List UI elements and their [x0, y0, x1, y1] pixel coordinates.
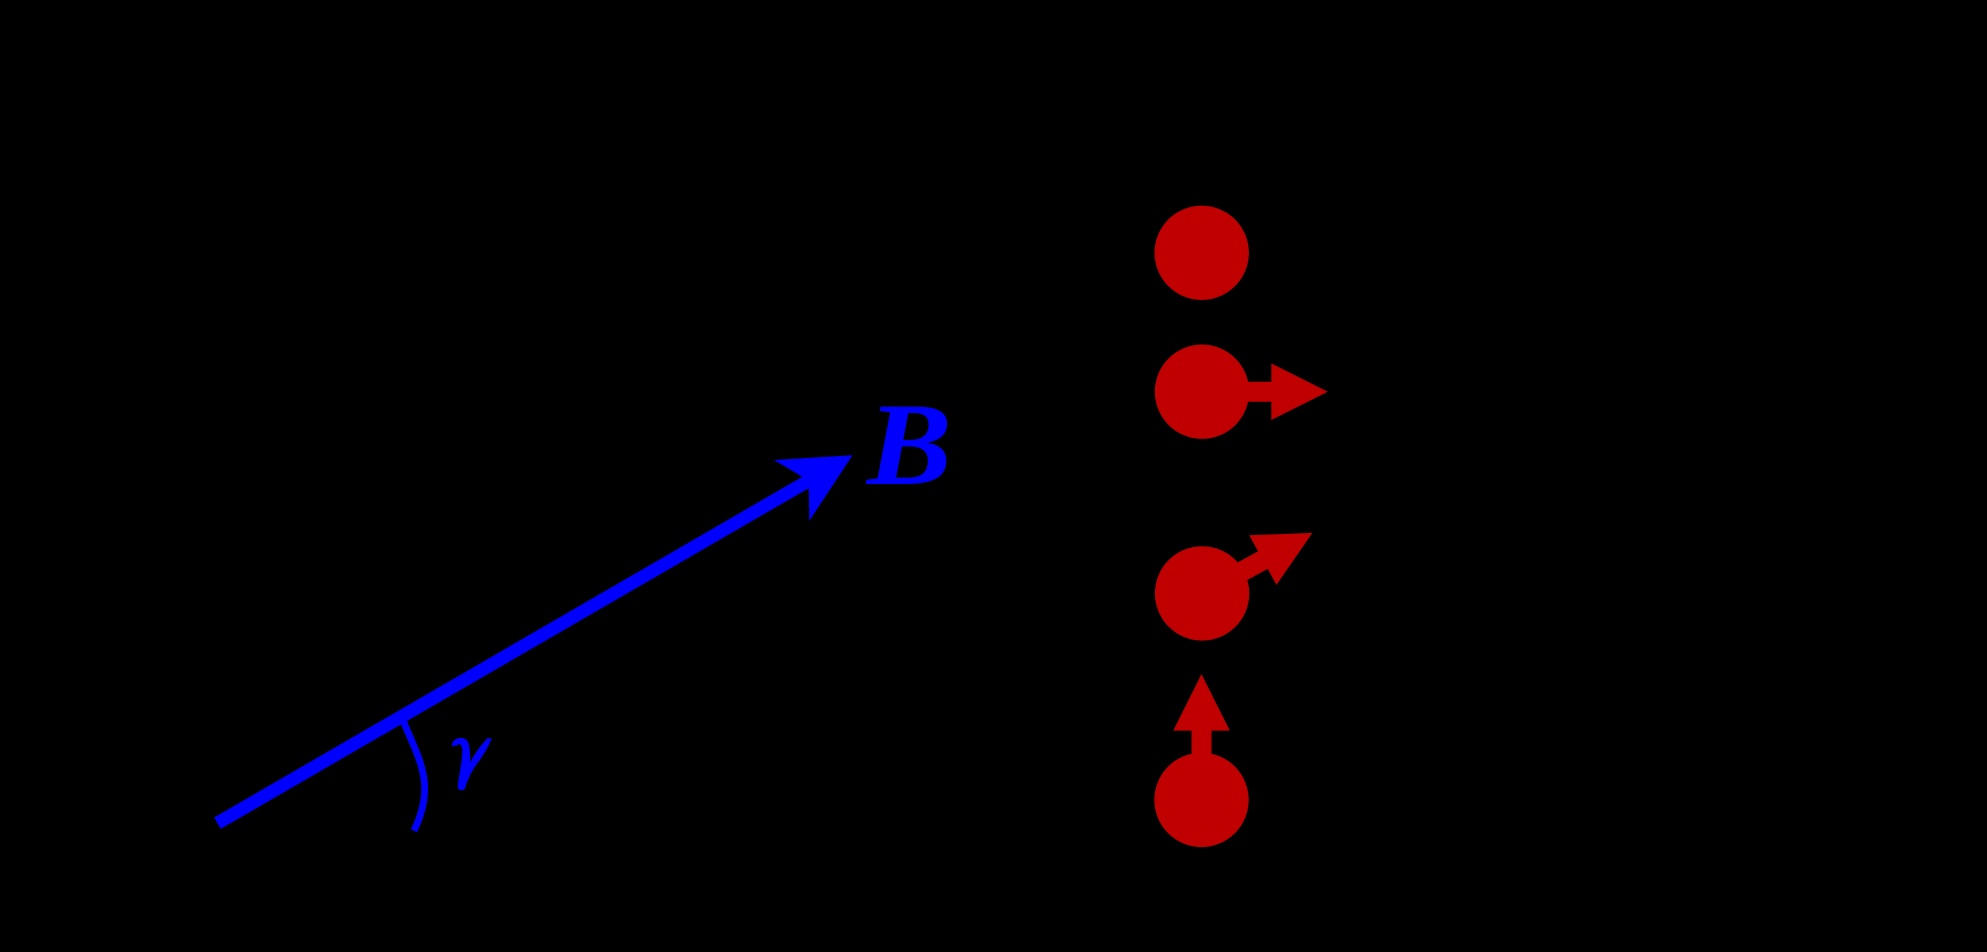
particle 3 (red circle with diagonal velocity arrow, parallel to B)	[1155, 546, 1249, 640]
velocity arrow v3 (points up-right, ~-29deg)	[1188, 508, 1326, 618]
velocity arrow v4 (points up)	[1173, 674, 1230, 800]
particle 4 (red circle with upward velocity arrow)	[1154, 753, 1248, 847]
label gamma (custom drawn math italic gamma)	[452, 738, 492, 790]
magnetic field vector B arrowhead (stealth)	[774, 425, 870, 521]
magnetic field vector B (blue arrow shaft)	[217, 481, 808, 823]
velocity arrow v2 (points right)	[1202, 363, 1328, 420]
particle 2 (red circle with rightward velocity arrow)	[1155, 345, 1249, 439]
angle arc gamma	[402, 717, 425, 831]
svg-text:B: B	[865, 379, 952, 510]
particle 1 (top red circle, no velocity)	[1155, 206, 1249, 300]
